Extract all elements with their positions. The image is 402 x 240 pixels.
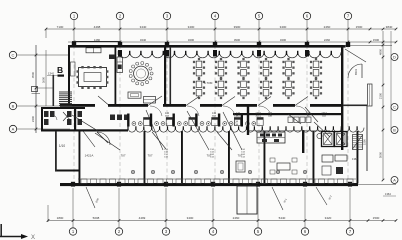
arched screen (mid band) [127,126,364,132]
grid bubble 2 (bottom) [115,188,122,235]
grid bubble B (left) [9,102,70,109]
dimension line (inner top) [68,38,397,44]
svg-text:B: B [57,65,63,75]
label 1341 [47,72,58,76]
dimension line (left vertical) [31,45,37,133]
dining tables (hall, 6x2 clusters) [193,58,322,99]
svg-text:3420: 3420 [325,216,332,220]
cabinet (room2 west wall) [117,57,123,73]
grid centerline [347,45,349,185]
grid bubble 2 (top) [116,12,123,45]
sofa set (room right-1) [236,161,245,172]
svg-text:B: B [12,104,15,109]
wall (room partition) [313,131,315,184]
room label 707 [147,154,152,158]
svg-text:3400: 3400 [188,38,195,42]
door swing diagonals (toilets) [63,112,120,150]
grid bubble 3 (bottom) [162,188,169,235]
dimension line (outer top) [45,25,398,38]
svg-text:2460: 2460 [324,25,331,29]
grid bubble A (left) [9,125,70,132]
svg-text:7100: 7100 [57,25,64,29]
door swing arc (corridor) [223,106,235,116]
property line (left) [35,45,37,133]
grid centerline [306,45,308,185]
svg-text:2400: 2400 [31,115,35,122]
leader note 1 [272,187,288,210]
svg-text:707: 707 [165,115,170,118]
svg-text:3400: 3400 [188,25,195,29]
axis arrow X [0,224,35,240]
wall (partition room2/hall) [164,45,166,104]
booth row (mid band) [127,114,263,127]
svg-text:1364: 1364 [385,192,391,196]
svg-text:D: D [393,55,396,59]
svg-text:134: 134 [256,117,261,120]
wall (left wing north) [41,107,85,109]
svg-text:1800: 1800 [57,216,64,220]
dimension line (left vertical 2) [42,50,47,106]
wall (west exterior) [68,45,70,106]
round banquet table (room 2) [129,62,153,86]
grid bubble 7 (top) [344,12,351,45]
window modules (south wall) [78,179,356,183]
stair (right of elevators) [353,135,363,150]
wall (service north, right) [233,113,343,115]
hall area label [204,81,213,85]
kitchen label block [234,116,239,127]
wall (hall south, with door openings) [60,104,367,107]
floor drain symbols [131,170,307,174]
door swing arc (corridor) [150,106,162,116]
wall (room partition) [144,131,146,184]
room label 707 [237,154,242,158]
svg-text:3400: 3400 [280,25,287,29]
wall fragment (west of stair) [36,75,54,106]
note rotated (right) [354,68,358,75]
svg-text:4800: 4800 [379,48,383,55]
grid bubble 4 (top) [211,12,218,45]
wall (south exterior) [60,183,396,186]
wall (room partition) [79,131,81,184]
cabinet (room1 north wall) [86,48,101,53]
svg-text:5000: 5000 [379,151,383,158]
svg-text:3400: 3400 [187,216,194,220]
columns on colonnade [118,50,309,57]
section marker B [57,65,64,77]
svg-text:4499: 4499 [139,216,146,220]
room label block [321,112,327,118]
svg-text:5008: 5008 [93,216,100,220]
svg-text:3400: 3400 [280,38,287,42]
sofa set (room right-2) [270,158,297,174]
wall (north exterior) [68,45,346,48]
room label block [268,112,273,118]
grid bubble 6 (top) [303,12,310,45]
svg-text:1500: 1500 [373,38,380,42]
door leaves (hall south) [98,96,308,106]
dimension line (right vertical) [379,31,385,181]
grid bubble 7 (bottom) [346,188,353,235]
wall (small room south) [55,170,80,172]
svg-text:C: C [393,105,396,109]
grid centerline [258,45,260,185]
room label block [212,112,217,118]
symbol P (left) [32,87,41,94]
svg-text:A: A [393,178,396,182]
leader note 2 [86,187,100,208]
grid bubble D (right) [391,54,398,61]
svg-text:707: 707 [212,115,217,118]
room label block [236,112,241,118]
kitchen counter (right) [288,117,322,139]
kitchen walls [247,105,330,153]
grid bubble 1 (bottom) [69,188,76,235]
svg-text:3440: 3440 [140,38,147,42]
elevator shafts [322,132,348,147]
wall (room partition) [357,131,359,184]
leader note 3 [316,187,333,205]
grid bubble 5 (top) [255,12,262,45]
wall (room partition) [181,131,183,184]
door arc (room 1421A) [97,132,110,145]
svg-text:707: 707 [120,154,125,158]
grid bubble A (right) [391,177,398,184]
wall (partition room1/room2) [115,45,117,104]
kitchen island [257,132,285,143]
svg-text:B031: B031 [354,68,358,75]
canopy line [72,41,120,43]
columns (south face) [71,182,352,187]
exterior porch box [237,186,257,214]
washbasins (mid-left) [110,115,129,121]
room label 1/10 [59,144,65,148]
columns (north face) [72,42,350,47]
svg-text:2460: 2460 [233,216,240,220]
ramp (right) [368,84,373,106]
grid centerline [119,45,121,185]
grid bubble C (left) [9,51,70,58]
sofa set (far right room) [322,155,347,175]
note stack [210,149,214,159]
door mark (room1/2 wall) [109,55,115,60]
leader lines (mid band) [83,107,330,150]
door arc (right entrance) [348,64,362,78]
svg-text:1500: 1500 [356,25,363,29]
svg-text:4498: 4498 [94,25,101,29]
door swing arc (corridor) [296,106,308,116]
wall (left small rooms) [55,131,57,171]
room label 707 [206,154,211,158]
grid centerline [73,45,75,185]
svg-text:707: 707 [268,115,273,118]
svg-text:1500: 1500 [373,216,380,220]
svg-text:3900: 3900 [234,25,241,29]
cabinet (room1 west wall) [71,62,76,76]
sofa 2 (room 2) [144,97,156,104]
svg-text:1500: 1500 [363,139,367,145]
wall (room partition) [228,131,230,184]
room label 707 [120,154,125,158]
wall (hall west) [170,47,172,104]
grid bubble 6 (bottom) [301,188,308,235]
room label block [306,112,311,118]
svg-text:707: 707 [147,154,152,158]
dimension line (right vertical 2) [390,31,392,130]
svg-text:A: A [12,127,15,132]
svg-text:1421A: 1421A [85,154,94,158]
svg-text:3900: 3900 [234,38,241,42]
grid centerline [214,45,216,185]
svg-text:3440: 3440 [140,25,147,29]
svg-text:5440: 5440 [279,216,286,220]
wall (east main) [341,45,343,150]
vertical wall segment (right rooms) [363,106,368,171]
dimension line (bottom) [47,205,398,222]
grid bubble C (right) [391,104,398,111]
grid bubble 4 (bottom) [209,188,216,235]
svg-text:707: 707 [322,115,327,118]
wall (room partition) [264,131,266,184]
svg-text:3600: 3600 [42,76,46,83]
svg-text:1/10: 1/10 [59,144,65,148]
eave line (top right) [344,44,393,46]
diag leader (top right) [345,49,366,62]
svg-text:4500: 4500 [31,71,35,78]
door swing arc (corridor) [187,106,199,116]
arched colonnade (north) [118,51,341,58]
grid centerline [166,45,168,185]
stair treads (left) [59,92,72,105]
room label 1421A [85,154,94,158]
svg-text:2100: 2100 [379,92,383,99]
svg-text:3840: 3840 [386,25,393,29]
note stack [164,149,168,159]
svg-text:1364: 1364 [352,157,358,161]
svg-text:2460: 2460 [324,38,331,42]
room label block [255,112,261,120]
grid bubble B (right) [391,127,398,134]
svg-text:1341: 1341 [48,72,55,76]
toilet fixtures (left wing) [44,107,82,131]
sofa (room 2) [128,92,141,98]
conference table group (room 1) [77,66,109,89]
wall (grid A mid) [42,129,128,131]
svg-text:C: C [12,53,15,58]
right margin note [383,192,396,196]
wall (left wing west) [41,107,43,132]
svg-text:X: X [31,235,35,240]
grid bubble 1 (top) [70,12,77,45]
note stack [241,149,245,159]
grid bubble 3 (top) [163,12,170,45]
door swing arc (corridor) [259,106,271,116]
room label block [165,112,170,118]
label 1364 [352,157,358,161]
svg-text:B: B [393,128,396,132]
svg-text:6.70M: 6.70M [204,81,213,85]
grid bubble 5 (bottom) [254,188,261,235]
